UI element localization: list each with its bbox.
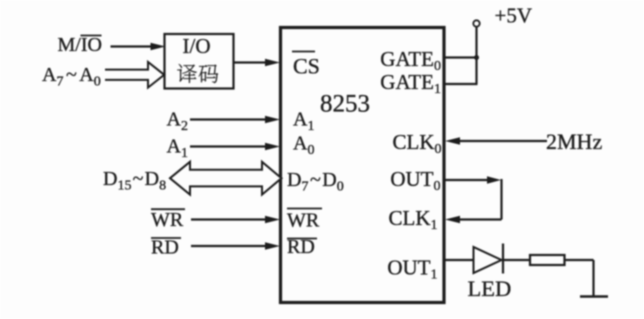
svg-text:D7~D0: D7~D0: [287, 169, 344, 195]
svg-text:A7~A0: A7~A0: [42, 64, 101, 90]
svg-text:GATE1: GATE1: [380, 70, 441, 97]
svg-text:I/O: I/O: [183, 34, 211, 58]
svg-text:8253: 8253: [320, 91, 370, 118]
svg-text:RD: RD: [151, 237, 179, 259]
svg-text:CLK1: CLK1: [389, 206, 438, 233]
svg-text:WR: WR: [287, 210, 320, 232]
svg-text:WR: WR: [151, 209, 184, 231]
svg-text:OUT1: OUT1: [387, 256, 437, 283]
svg-text:+5V: +5V: [495, 4, 533, 28]
svg-text:OUT0: OUT0: [390, 167, 440, 194]
svg-text:M/IO: M/IO: [58, 34, 102, 56]
svg-text:CS: CS: [293, 54, 320, 79]
svg-text:CLK0: CLK0: [393, 130, 442, 157]
svg-text:LED: LED: [468, 276, 512, 301]
svg-text:D15~D8: D15~D8: [103, 168, 166, 194]
svg-text:2MHz: 2MHz: [546, 129, 602, 154]
